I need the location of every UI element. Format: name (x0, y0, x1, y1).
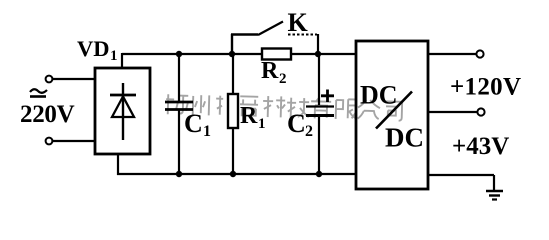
svg-text:R: R (240, 103, 258, 129)
svg-text:+43V: +43V (452, 133, 509, 160)
svg-text:K: K (288, 8, 309, 37)
svg-text:R: R (261, 58, 279, 84)
svg-text:220V: 220V (20, 101, 75, 128)
svg-text:1: 1 (258, 116, 266, 132)
svg-text:DC: DC (360, 81, 398, 110)
svg-text:2: 2 (279, 71, 287, 87)
svg-text:1: 1 (203, 123, 211, 140)
svg-text:2: 2 (305, 123, 313, 140)
svg-text:DC: DC (385, 123, 424, 153)
svg-text:+120V: +120V (450, 74, 521, 101)
svg-text:1: 1 (110, 48, 118, 64)
svg-text:VD: VD (77, 36, 110, 61)
svg-text:C: C (287, 109, 306, 138)
svg-text:C: C (184, 109, 203, 138)
